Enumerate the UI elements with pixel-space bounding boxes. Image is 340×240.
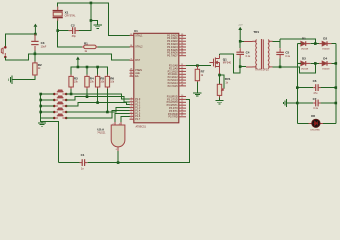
wire D3-D4 (310, 62, 319, 64)
svg-text:25: 25 (181, 76, 183, 78)
svg-text:P3.7/RD: P3.7/RD (168, 116, 177, 119)
svg-text:33p: 33p (72, 35, 77, 38)
svg-text:47u: 47u (313, 92, 318, 95)
wire C7 row (297, 102, 336, 104)
wire pullup rail (71, 67, 107, 75)
wire secondary bottom to bridge M2 (273, 63, 316, 73)
wire XTAL2 / crystal bottom (58, 21, 82, 47)
wire DC+ rail (335, 44, 337, 124)
junction (39, 105, 42, 108)
svg-text:1N4148: 1N4148 (322, 49, 330, 51)
svg-text:D3: D3 (302, 56, 306, 60)
push button SW3 (55, 102, 65, 106)
wire R4 bottom (86, 89, 88, 97)
svg-text:C2: C2 (71, 23, 75, 27)
resistor R1 (82, 46, 98, 48)
junction (96, 66, 99, 69)
ground reset (9, 76, 12, 84)
svg-text:31: 31 (130, 75, 132, 77)
junction (96, 101, 99, 104)
svg-text:1: 1 (131, 97, 132, 99)
pin stub TR1 p1 (244, 40, 252, 42)
junction (77, 66, 80, 69)
wire C3 to RST node (34, 50, 36, 54)
svg-text:19: 19 (130, 34, 132, 36)
svg-text:RST: RST (135, 59, 140, 62)
svg-text:R1: R1 (84, 41, 88, 45)
junction (279, 66, 282, 69)
diode D4 (319, 61, 332, 66)
junction (218, 74, 221, 77)
wire gate output (117, 151, 119, 163)
svg-text:C6: C6 (313, 79, 317, 83)
wire AC top rail to bridge M1 (280, 39, 315, 44)
wire secondary top (273, 39, 280, 48)
wire R1 to XTAL2 pin (98, 46, 130, 48)
wire R5 bottom (97, 89, 99, 103)
wire button row to common (41, 111, 55, 113)
wire button row to common (41, 117, 55, 119)
svg-text:P2.7/A15: P2.7/A15 (168, 85, 179, 88)
svg-text:CRYSTAL: CRYSTAL (65, 14, 76, 17)
junction (34, 53, 37, 56)
svg-text:C7: C7 (313, 97, 317, 101)
transistor Q1 IRF540 (209, 55, 219, 74)
junction (39, 111, 42, 114)
wire Q1 drain to TR1 (220, 54, 241, 73)
junction (56, 29, 59, 32)
ground RV1 (215, 101, 223, 104)
junction (335, 86, 338, 89)
wire D1-D2 (310, 43, 319, 45)
svg-text:P0.7/AD7: P0.7/AD7 (167, 55, 178, 58)
svg-text:0.1u: 0.1u (313, 107, 318, 110)
svg-text:33: 33 (181, 51, 183, 53)
junction (106, 111, 109, 114)
wire gate input B to P1.6 (121, 116, 130, 122)
junction (70, 93, 73, 96)
svg-text:9: 9 (131, 59, 132, 61)
svg-text:18: 18 (130, 45, 132, 47)
svg-text:+12V: +12V (238, 24, 243, 26)
svg-text:12: 12 (181, 101, 183, 103)
svg-text:TR1: TR1 (253, 30, 259, 34)
svg-text:6: 6 (131, 112, 132, 114)
wire button row to common (41, 99, 55, 101)
wire to ground tap (287, 102, 298, 104)
wire row4 to P1.3 (66, 108, 130, 112)
svg-text:D1: D1 (302, 37, 306, 41)
resistor R3 (70, 75, 72, 89)
wire button row to common (41, 105, 55, 107)
junction (296, 86, 299, 89)
junction (314, 62, 317, 65)
wire row1 to P1.0 (66, 94, 130, 99)
svg-text:23: 23 (181, 70, 183, 72)
svg-text:35: 35 (181, 45, 183, 47)
crystal X1 (53, 7, 63, 21)
svg-text:27: 27 (181, 81, 183, 83)
junction (196, 64, 199, 67)
push button SW4 (55, 108, 65, 112)
svg-text:36: 36 (181, 43, 183, 45)
wire gate input A to P1.5 (115, 113, 130, 121)
svg-text:TRAN-2P2S: TRAN-2P2S (255, 69, 269, 72)
wire R7 to ground (196, 82, 198, 93)
svg-text:10uF: 10uF (41, 45, 47, 48)
junction (39, 93, 42, 96)
svg-text:17: 17 (181, 115, 183, 117)
ground oscillator (93, 25, 101, 28)
svg-text:5: 5 (131, 109, 132, 111)
transformer TR1 TRAN-2P2S (252, 39, 272, 69)
push button SW1 (55, 90, 65, 94)
diode D2 (319, 41, 332, 46)
svg-text:26: 26 (181, 79, 183, 81)
svg-text:2: 2 (113, 123, 114, 125)
svg-text:74LS21: 74LS21 (97, 132, 106, 135)
resistor R4 (86, 75, 88, 89)
wire to primary top (240, 40, 244, 42)
wire RST to R2 (34, 54, 36, 62)
power +5V rail (76, 57, 80, 68)
wire button common / C1 left leg (41, 94, 59, 163)
wire bridge left stubs (297, 44, 301, 64)
push button SW2 (55, 96, 65, 100)
junction (117, 161, 120, 164)
diode D1 (298, 41, 311, 46)
svg-text:XTAL1: XTAL1 (135, 34, 143, 37)
svg-text:0.1u: 0.1u (285, 55, 290, 58)
wire RST net (5, 54, 130, 60)
wire C5 bottom (279, 59, 281, 67)
wire R3 bottom (70, 89, 72, 94)
svg-text:6: 6 (116, 149, 117, 151)
capacitor C3 (34, 34, 36, 50)
junction (86, 66, 89, 69)
wire DC- rail (296, 44, 298, 124)
wire to C4 top (239, 41, 241, 48)
svg-text:8: 8 (131, 118, 132, 120)
svg-text:29: 29 (130, 69, 132, 71)
wire to RV1 wiper (220, 75, 225, 88)
wire XTAL1 net top (58, 3, 130, 36)
ground R7 (193, 93, 201, 96)
op-amp U2:A (74LS21 gate) (111, 125, 125, 147)
junction (239, 40, 242, 43)
resistor R7 (196, 66, 198, 82)
svg-text:15: 15 (181, 109, 183, 111)
wire bottom to P3.1 (87, 99, 189, 162)
svg-text:1N4148: 1N4148 (322, 68, 330, 70)
ground keypad (38, 123, 46, 126)
microcontroller U1 AT89C51 (130, 33, 187, 123)
junction (90, 2, 93, 5)
junction (86, 95, 89, 98)
junction (314, 42, 317, 45)
wire to ground tap (91, 21, 98, 25)
wire rail to R4 (86, 67, 88, 75)
wire row3 to P1.2 (66, 103, 130, 106)
wire LED row (297, 122, 336, 124)
wire RV1 to ground (219, 97, 221, 100)
svg-text:28: 28 (181, 84, 183, 86)
junction (39, 99, 42, 102)
svg-text:37: 37 (181, 40, 183, 42)
svg-text:IRF540: IRF540 (223, 62, 232, 65)
ground output (283, 99, 286, 107)
wire C2 right leg (77, 3, 91, 31)
power +5V reset (34, 24, 38, 34)
svg-text:22: 22 (181, 67, 183, 69)
svg-text:13: 13 (181, 104, 183, 106)
junction (239, 65, 242, 68)
junction (335, 62, 338, 65)
push button reset (1, 46, 5, 56)
junction (296, 102, 299, 105)
svg-text:38: 38 (181, 37, 183, 39)
wire C6 row (297, 87, 336, 89)
wire R6 bottom (106, 89, 108, 112)
wire to C2 left (58, 30, 69, 32)
svg-text:7: 7 (131, 115, 132, 117)
svg-text:10: 10 (181, 95, 183, 97)
svg-text:D4: D4 (323, 56, 327, 60)
svg-text:4: 4 (119, 123, 120, 125)
svg-text:C1: C1 (81, 153, 85, 157)
power +12V primary (238, 27, 242, 42)
svg-text:1N4148: 1N4148 (301, 68, 309, 70)
svg-text:AT89C51: AT89C51 (136, 125, 147, 128)
wire bottom left (59, 162, 80, 164)
resistor R6 (106, 75, 108, 89)
diode D3 (298, 61, 311, 66)
wire source to RV1 (219, 74, 221, 84)
svg-text:EA: EA (135, 75, 139, 78)
svg-text:XTAL2: XTAL2 (135, 46, 143, 49)
svg-text:D6: D6 (311, 114, 315, 118)
pin stub TR1 p2 (246, 66, 252, 68)
svg-text:32: 32 (181, 54, 183, 56)
svg-text:21: 21 (181, 64, 183, 66)
svg-text:3: 3 (131, 103, 132, 105)
svg-text:2: 2 (131, 100, 132, 102)
svg-text:LED-RED: LED-RED (310, 130, 320, 132)
wire rail to R5 (97, 67, 99, 75)
wire R2 to ground (12, 76, 35, 80)
wire VCC to button top (5, 34, 35, 46)
wire C4 bottom (239, 59, 241, 67)
junction (34, 33, 37, 36)
junction (90, 19, 93, 22)
wire to primary bottom (240, 66, 246, 68)
wire bridge right stubs (332, 44, 336, 64)
wire row2 to P1.1 (66, 97, 130, 102)
svg-text:11: 11 (181, 98, 183, 100)
svg-text:16: 16 (181, 112, 183, 114)
resistor R5 (97, 75, 99, 89)
svg-text:30: 30 (130, 72, 132, 74)
svg-text:U1: U1 (134, 29, 138, 33)
push button SW5 (55, 114, 65, 118)
wire row5 to P1.4 (66, 111, 130, 119)
svg-text:0.1u: 0.1u (246, 55, 251, 58)
svg-text:P1.7: P1.7 (135, 118, 141, 121)
wire ground stem (41, 121, 43, 123)
svg-text:D2: D2 (323, 37, 327, 41)
wire P2.0 to gate of Q1 (186, 65, 211, 67)
svg-text:1N4148: 1N4148 (301, 49, 309, 51)
junction (335, 102, 338, 105)
svg-text:39: 39 (181, 34, 183, 36)
